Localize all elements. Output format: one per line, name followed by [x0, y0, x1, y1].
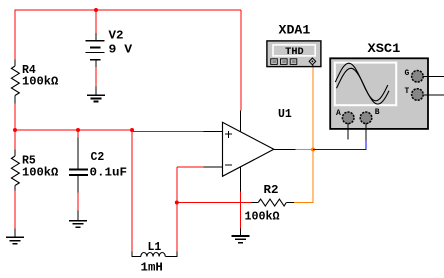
svg-text:9 V: 9 V: [109, 43, 133, 56]
ground (left rail, below R5): [6, 229, 24, 244]
node: junction mid bus / C2: [76, 128, 80, 132]
wire: R2 right to output node (orange): [294, 150, 313, 203]
wire: U1 V+ rail (red, right vertical from top bus): [240, 10, 242, 111]
resistor R4: [11, 60, 19, 104]
wire: output to node (orange): [296, 149, 313, 151]
wire: mid bus y=130 from left rail to U1 + input: [15, 129, 133, 131]
op-amp U1: [204, 111, 296, 192]
pin: XSC1 channel B stub: [365, 123, 367, 140]
wire: node up to XDA1 terminal (orange): [312, 67, 314, 150]
resistor R2: [251, 199, 294, 206]
wire: top bus from left rail to U1 V+ rail: [15, 9, 242, 11]
ground (below C2): [69, 211, 87, 228]
svg-text:C2: C2: [91, 151, 105, 164]
ground (below U1): [231, 228, 249, 242]
pin: XSC1 channel A stub: [347, 123, 349, 139]
wire: C2 branch (red): [77, 130, 79, 138]
battery V2: [86, 33, 105, 67]
wire: V2 top to bus (red): [95, 10, 97, 33]
svg-text:THD: THD: [285, 46, 304, 57]
resistor R5: [11, 150, 19, 191]
wire: U1 V- down to ground (red): [239, 192, 241, 229]
wire: node to R2 left (red): [177, 202, 252, 204]
svg-text:100kΩ: 100kΩ: [245, 210, 280, 223]
svg-text:L1: L1: [148, 241, 162, 254]
node: junction L1 right / R2 wire: [175, 201, 179, 205]
svg-text:R2: R2: [264, 184, 279, 197]
node: junction left rail / mid bus: [13, 128, 17, 132]
svg-text:B: B: [375, 108, 380, 117]
node: junction mid bus / L1 left: [130, 128, 134, 132]
wire: left rail x=15 (red segments): [14, 10, 16, 229]
node: junction top bus / V2: [94, 8, 98, 12]
wire: inverting input wire (red): [177, 166, 204, 168]
svg-text:V2: V2: [109, 30, 124, 43]
svg-text:A: A: [336, 109, 341, 118]
wire: L1 left leg (red, down from mid bus): [131, 130, 133, 252]
inductor L1: [132, 252, 177, 257]
svg-text:U1: U1: [278, 108, 292, 121]
distortion analyzer XDA1: [267, 41, 321, 67]
wire: V2 bottom to ground (red): [95, 67, 97, 87]
svg-text:0.1uF: 0.1uF: [90, 166, 128, 179]
node: output junction: [311, 148, 315, 152]
wire: C2 bottom to ground (red): [77, 192, 79, 210]
svg-text:XSC1: XSC1: [368, 41, 401, 56]
wire: node to XSC1 channel B (blue): [313, 141, 366, 150]
svg-text:XDA1: XDA1: [279, 22, 311, 37]
svg-text:100kΩ: 100kΩ: [22, 166, 58, 179]
svg-text:1mH: 1mH: [141, 261, 163, 274]
wire: L1 right leg up to inverting node (red): [176, 167, 178, 252]
capacitor C2: [69, 138, 88, 193]
svg-text:100kΩ: 100kΩ: [22, 76, 58, 89]
oscilloscope XSC1: [330, 58, 444, 129]
svg-text:G: G: [405, 69, 410, 78]
ground (battery V2): [87, 87, 105, 102]
svg-text:T: T: [405, 87, 410, 96]
